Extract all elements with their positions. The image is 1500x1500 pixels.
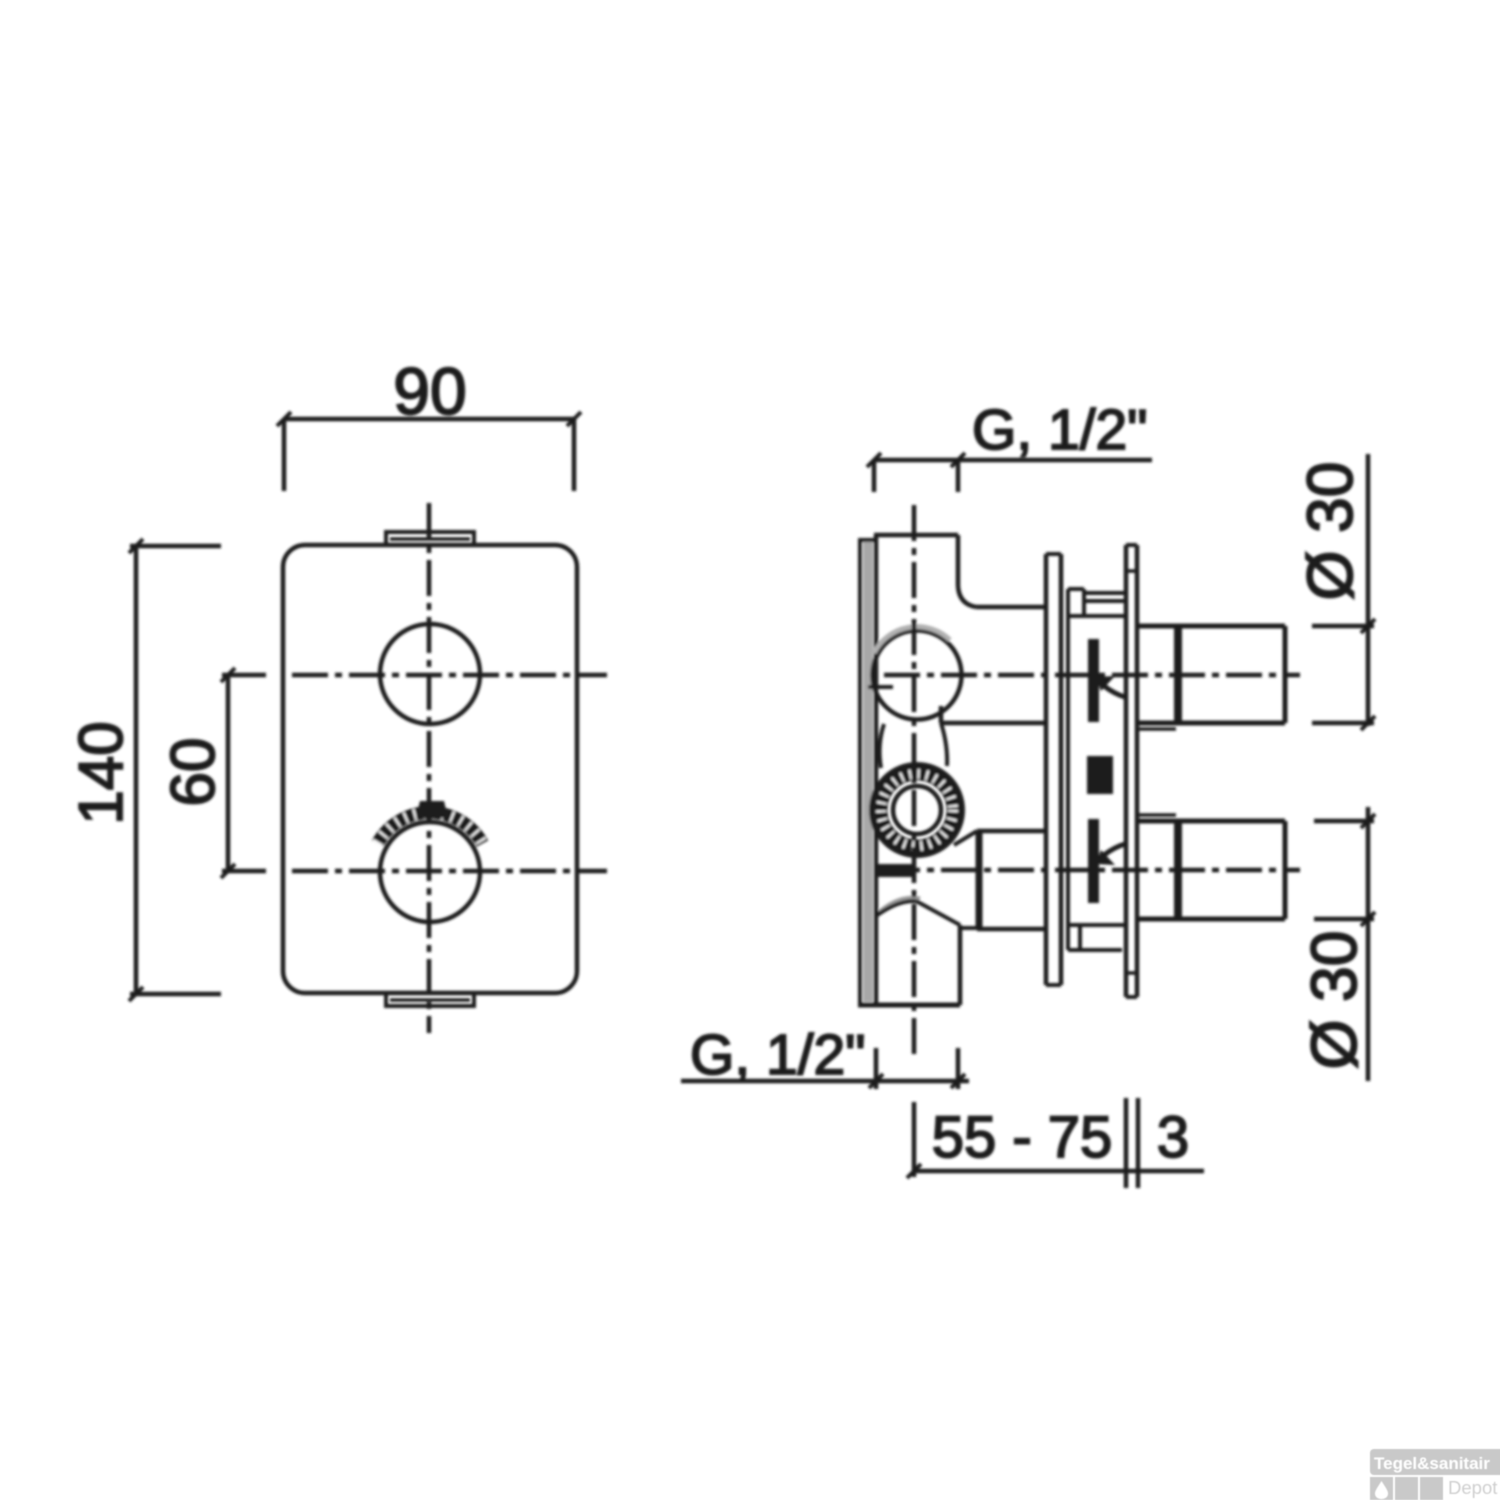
- O30 lower extension top: [1314, 819, 1374, 824]
- dimension 140 line: [134, 546, 139, 994]
- body right edge upper: [956, 535, 961, 586]
- body chamfer to channel: [958, 586, 976, 607]
- svg-text:Ø 30: Ø 30: [1294, 462, 1366, 601]
- svg-text:3: 3: [1157, 1105, 1189, 1170]
- top mounting tab: [386, 532, 474, 544]
- wall marker bar left: [1124, 1098, 1129, 1188]
- svg-text:60: 60: [159, 738, 228, 807]
- dimension 60 tick top: [221, 668, 235, 682]
- svg-text:G, 1/2": G, 1/2": [972, 398, 1147, 462]
- dimension 90 extension left: [282, 419, 287, 491]
- dimension 60 extension bottom: [222, 869, 266, 874]
- O30 lower tick bottom: [1361, 912, 1375, 926]
- cartridge housing top line c: [1068, 614, 1126, 618]
- svg-text:55 - 75: 55 - 75: [932, 1105, 1113, 1170]
- cover plate rounded rectangle: [283, 545, 577, 993]
- upper knob circle: [380, 624, 480, 724]
- threaded ring knurl texture: [881, 774, 953, 846]
- dimension 140 tick top: [129, 539, 143, 553]
- wall plate left edge: [858, 538, 862, 1005]
- O30 upper extension top: [1312, 624, 1374, 629]
- logo square 1: [1370, 1477, 1393, 1500]
- wall plate gray infill: [863, 542, 873, 1002]
- dimension 140 extension top: [130, 544, 221, 549]
- escutcheon plate (plate3) right edge: [1135, 545, 1140, 997]
- lower channel bottom line: [977, 927, 1046, 932]
- bottom mounting tab: [386, 994, 474, 1006]
- G 1/2 top extension right: [956, 460, 961, 492]
- cartridge housing top tab top: [1068, 587, 1084, 591]
- upper pipe bottom: [1137, 721, 1285, 726]
- dimension 140 label: [67, 721, 136, 824]
- dimension O30 lower label: [1298, 931, 1370, 1070]
- cartridge housing top tab right edge: [1082, 589, 1086, 616]
- O30 upper tick top: [1361, 619, 1375, 633]
- dimension 55-75 line: [914, 1169, 1204, 1174]
- lower pipe thread boundary: [1174, 821, 1182, 919]
- plate3 lower end mark: [1126, 971, 1137, 975]
- body left edge: [874, 535, 879, 1005]
- threaded ring outer: [872, 765, 962, 855]
- lower knob grip serration (white notches): [378, 813, 483, 844]
- dimension G 1/2 top line: [874, 458, 1152, 463]
- upper pipe end: [1283, 626, 1288, 723]
- bottom boss top-left curve: [876, 901, 916, 916]
- lower pipe bottom: [1137, 917, 1285, 922]
- section bar black lower: [1088, 819, 1099, 903]
- lower knob circle: [380, 822, 480, 922]
- G 1/2 top tick right: [951, 453, 965, 467]
- vertical centerline front view: [427, 503, 432, 1033]
- dimension 60 tick bottom: [221, 864, 235, 878]
- upper axis centerline: [884, 673, 1300, 678]
- wall plate top cap: [860, 538, 876, 542]
- section block black middle: [1087, 756, 1113, 794]
- upper pipe nut line: [1137, 727, 1176, 731]
- section bar black upper: [1088, 639, 1099, 722]
- dimension 55-75 label: [932, 1105, 1113, 1170]
- dimension O30 upper line: [1366, 454, 1371, 726]
- lower channel thick vertical: [976, 831, 983, 929]
- plate3 bottom cap: [1126, 995, 1137, 999]
- cartridge housing bottom line a: [1068, 923, 1126, 927]
- wedge ring to channel: [954, 831, 977, 845]
- G 1/2 bottom tick left: [869, 1074, 883, 1088]
- O30 upper tick bottom: [1361, 716, 1375, 730]
- escutcheon plate (plate3) left edge: [1124, 545, 1129, 997]
- flow arrow lower: [1096, 850, 1115, 865]
- dimension 140 extension bottom: [130, 992, 221, 997]
- cartridge housing bottom line b: [1068, 948, 1122, 952]
- 55-75 left riser: [912, 1102, 917, 1177]
- dimension 60 line: [226, 675, 231, 871]
- neck left curve: [880, 724, 884, 768]
- bottom boss top-right slope: [916, 901, 960, 925]
- boss top gray shade: [880, 898, 920, 912]
- dimension G 1/2 bottom line: [681, 1079, 969, 1084]
- plate1 top cap: [1046, 552, 1061, 556]
- dimension 140 tick bottom: [129, 987, 143, 1001]
- plate3 upper end mark: [1126, 569, 1137, 573]
- cartridge housing top line a: [1084, 591, 1126, 595]
- G 1/2 top extension left: [872, 460, 877, 492]
- bottom mounting tab inner line: [390, 998, 470, 1002]
- lower knob horizontal centerline: [292, 869, 607, 874]
- dimension 90 label: [393, 354, 466, 428]
- flow arrow upper: [1096, 676, 1115, 691]
- G 1/2 bottom extension right: [956, 1048, 961, 1089]
- svg-text:G, 1/2": G, 1/2": [690, 1023, 865, 1087]
- dimension O30 lower line: [1366, 807, 1371, 1081]
- cartridge housing top line b: [1084, 599, 1126, 603]
- dimension 3 label: [1157, 1105, 1189, 1170]
- lower channel top line: [977, 829, 1046, 834]
- section bar black (left): [878, 864, 914, 877]
- body top edge: [874, 533, 958, 538]
- plate1 bottom cap: [1046, 983, 1061, 987]
- upper channel bottom line: [941, 721, 1046, 726]
- svg-text:140: 140: [67, 721, 136, 824]
- G 1/2 top tick left: [867, 453, 881, 467]
- upper pipe top: [1137, 624, 1285, 629]
- O30 lower tick top: [1361, 814, 1375, 828]
- G 1/2 bottom tick right: [951, 1074, 965, 1088]
- bottom boss connector line: [960, 926, 977, 930]
- inner protection plate (plate1) right edge: [1059, 554, 1064, 985]
- lower pipe end: [1283, 821, 1288, 919]
- upper channel top line: [976, 605, 1046, 610]
- dimension 60 extension top: [222, 673, 266, 678]
- threaded ring knurl band: [881, 774, 953, 846]
- logo square 3: [1420, 1477, 1443, 1500]
- wall marker bar right: [1136, 1098, 1141, 1188]
- cartridge housing left edge: [1066, 589, 1070, 950]
- svg-text:Tegel&sanitair: Tegel&sanitair: [1374, 1454, 1490, 1473]
- plate3 top cap: [1126, 543, 1137, 547]
- G 1/2 bottom extension left: [874, 1048, 879, 1089]
- lower pipe nut line: [1137, 813, 1176, 817]
- upper port circle side view: [873, 631, 962, 720]
- dimension G 1/2 top label: [972, 398, 1147, 462]
- dimension 60 label: [159, 738, 228, 807]
- dimension 90 tick right: [567, 412, 581, 426]
- upper port circle gray shade arc: [874, 627, 950, 653]
- lower axis centerline: [884, 868, 1300, 873]
- top mounting tab inner line: [390, 537, 470, 541]
- 55-75 tick left: [907, 1164, 921, 1178]
- inner protection plate (plate1) left edge: [1044, 554, 1049, 985]
- dimension 90 tick left: [277, 412, 291, 426]
- lower knob serrated grip arc: [378, 813, 483, 844]
- O30 upper extension bottom: [1312, 721, 1374, 726]
- dimension 90 extension right: [572, 419, 577, 491]
- dimension O30 upper label: [1294, 462, 1366, 601]
- O30 lower extension bottom: [1314, 917, 1374, 922]
- plate step left of upper circle: [868, 685, 893, 689]
- logo square 2: [1395, 1477, 1418, 1500]
- upper knob horizontal centerline: [292, 673, 607, 678]
- logo droplet: [1375, 1481, 1388, 1499]
- lower knob pointer marker: [416, 801, 448, 818]
- dimension 90 line: [284, 417, 574, 422]
- threaded ring inner bore: [893, 786, 941, 834]
- body stub right of upper circle: [939, 706, 944, 723]
- logo banner: [1370, 1449, 1500, 1475]
- dimension G 1/2 bottom label: [690, 1023, 865, 1087]
- neck right curve: [941, 723, 947, 766]
- lower pipe top: [1137, 819, 1285, 824]
- vertical centerline side view: [912, 505, 917, 1058]
- cartridge housing bottom tab right edge: [1078, 925, 1082, 950]
- bottom boss right edge: [958, 925, 963, 1005]
- svg-text:Ø 30: Ø 30: [1298, 931, 1370, 1070]
- wall plate bottom cap: [858, 1003, 960, 1008]
- upper pipe thread boundary: [1174, 626, 1182, 723]
- svg-text:Depot: Depot: [1448, 1477, 1497, 1498]
